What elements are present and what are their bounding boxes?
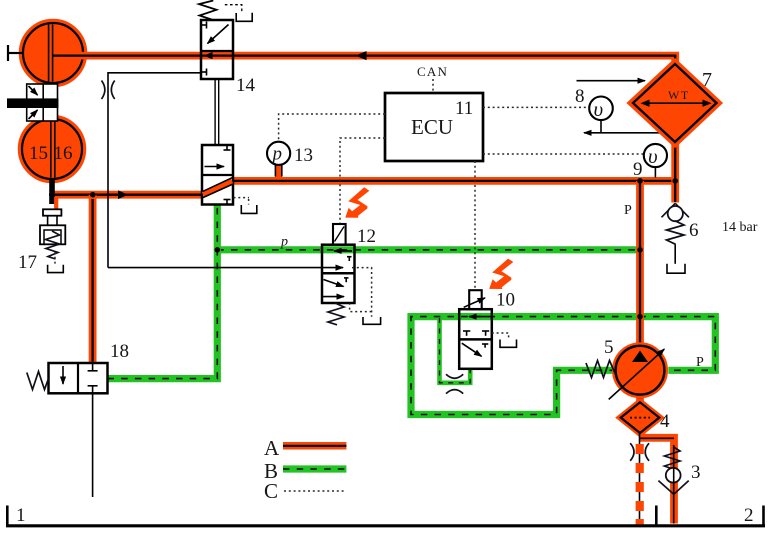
junction supply line / pump line (637, 178, 643, 184)
valve 14 pilot link (double line) (214, 79, 216, 145)
svg-text:p: p (280, 235, 288, 250)
dotted: ECU to sensor 8 (483, 106, 588, 108)
svg-text:7: 7 (702, 69, 712, 91)
wire B main green line (217, 246, 640, 253)
dotted: ECU to valve 10 solenoid (474, 161, 476, 289)
sensor 8 (speed) (575, 86, 666, 133)
svg-text:13: 13 (294, 145, 313, 166)
svg-text:11: 11 (455, 98, 473, 119)
lightning bolt at valve 10 (489, 259, 513, 289)
svg-text:16: 16 (54, 143, 73, 164)
svg-text:5: 5 (604, 337, 614, 358)
svg-text:C: C (264, 479, 278, 503)
valve 18 (27, 341, 129, 497)
wire A pump to diamond4 (636, 392, 644, 405)
wire B hose to valve10 (440, 318, 471, 383)
svg-text:3: 3 (691, 462, 701, 483)
wire A left front branch (50, 191, 202, 199)
junction at valve18 drop (90, 192, 96, 198)
wire A diamond4 to check valve 3 (640, 438, 675, 524)
junction green main / green vertical (215, 247, 221, 253)
svg-text:14: 14 (236, 75, 256, 96)
heat exchanger 7 (WT) (633, 64, 717, 142)
svg-text:2: 2 (744, 505, 754, 526)
svg-text:υ: υ (594, 97, 604, 121)
svg-text:CAN: CAN (417, 64, 448, 79)
svg-text:P: P (624, 203, 632, 218)
svg-text:9: 9 (633, 159, 643, 180)
ECU 11 (385, 93, 483, 161)
brake chamber lower 15/16 (spring brake) (20, 117, 85, 182)
dotted: ECU to sensor 9 (483, 153, 643, 155)
valve 12 (proportional) (322, 224, 381, 325)
brake chamber upper (service) (21, 21, 86, 86)
diamond 4 (filter) (621, 402, 670, 433)
sensor 9 (speed) (633, 144, 667, 180)
check valve 6 (14 bar relief) (662, 203, 758, 273)
wire B pump control loop (411, 317, 715, 415)
couplings at valve10 hose (446, 374, 463, 378)
valve 10 (proportional) (459, 290, 516, 369)
svg-text:p: p (271, 144, 283, 165)
valve 14 lower relay section (202, 145, 257, 213)
svg-text:A: A (264, 436, 280, 460)
svg-text:υ: υ (648, 144, 658, 168)
reservoir rail (6, 505, 765, 526)
svg-text:8: 8 (575, 86, 585, 107)
dotted: ECU to sensor 13 (279, 114, 385, 141)
arrow into heat exchanger (577, 80, 646, 82)
svg-text:ECU: ECU (411, 115, 453, 139)
push rod (8, 45, 23, 61)
svg-text:1: 1 (16, 505, 26, 526)
svg-text:14 bar: 14 bar (722, 220, 758, 235)
wire A drop to valve 18 (89, 195, 97, 362)
junction green main / pump line (637, 247, 643, 253)
svg-text:18: 18 (110, 341, 129, 362)
wire A diamond7 drop (671, 130, 679, 203)
slack adjuster linkage between chambers (7, 84, 58, 121)
svg-text:6: 6 (689, 220, 699, 241)
valve 14 upper 3/2 (199, 1, 256, 97)
pressure regulator 17 (18, 178, 65, 273)
check valve 3 (658, 445, 700, 524)
svg-text:WT: WT (668, 88, 690, 102)
wire B vertical + valve18 branch (108, 205, 218, 379)
lightning bolt at valve 12 (345, 187, 369, 217)
svg-text:17: 17 (18, 252, 37, 273)
svg-text:4: 4 (660, 411, 670, 432)
suction line below diamond 4 (630, 434, 649, 525)
wire A main top line (55, 56, 675, 80)
svg-text:10: 10 (496, 290, 515, 311)
svg-text:12: 12 (357, 226, 376, 247)
svg-text:15: 15 (29, 143, 48, 164)
dotted: ECU to valve 12 solenoid (340, 138, 385, 223)
junction green loop / pump line (637, 314, 643, 320)
pump 5 (variable) (586, 337, 704, 399)
arrow on top line (356, 51, 367, 60)
wire A supply line (second) (233, 177, 679, 185)
svg-text:P: P (696, 355, 704, 370)
control line frame to valve 12 (108, 73, 201, 268)
arrow on left branch (118, 190, 128, 199)
junction supply line / diamond7 drop (672, 178, 678, 184)
sensor 13 (pressure) (267, 142, 313, 178)
coupling )( on control line (102, 81, 105, 100)
wire A line to pump (636, 181, 644, 348)
